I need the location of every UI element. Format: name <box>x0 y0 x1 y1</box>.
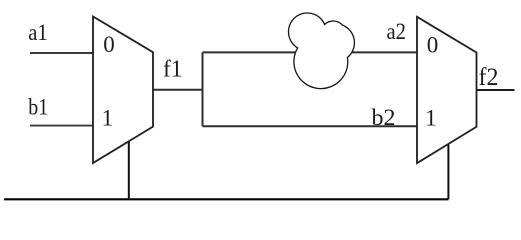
wire mux1 select stub <box>128 141 130 199</box>
svg-text:1: 1 <box>425 106 437 131</box>
wire mux2 select stub <box>447 144 449 200</box>
wire f2 (mux2 output) <box>477 89 515 91</box>
wire b1 input <box>30 125 93 127</box>
svg-text:1: 1 <box>102 106 114 131</box>
mux U2 (right 2:1 multiplexer trapezoid) <box>417 17 477 163</box>
svg-text:f2: f2 <box>479 64 499 91</box>
svg-text:f1: f1 <box>163 57 183 83</box>
wire b2 bottom rail <box>203 125 418 127</box>
svg-text:0: 0 <box>103 32 115 57</box>
cloud (combinational logic blob on a2 wire) <box>288 13 354 89</box>
svg-text:b1: b1 <box>28 94 48 119</box>
node f1 branch vertical <box>202 52 204 126</box>
svg-text:b2: b2 <box>372 105 396 130</box>
wire a2 top rail <box>203 51 418 53</box>
wire f1 (mux1 output) <box>153 89 203 91</box>
svg-text:0: 0 <box>427 33 439 58</box>
wire a1 input <box>30 52 93 54</box>
wire select rail (bottom) <box>4 198 448 200</box>
mux U1 (left 2:1 multiplexer trapezoid) <box>93 17 153 164</box>
svg-text:a1: a1 <box>28 20 48 45</box>
svg-text:a2: a2 <box>387 19 407 44</box>
